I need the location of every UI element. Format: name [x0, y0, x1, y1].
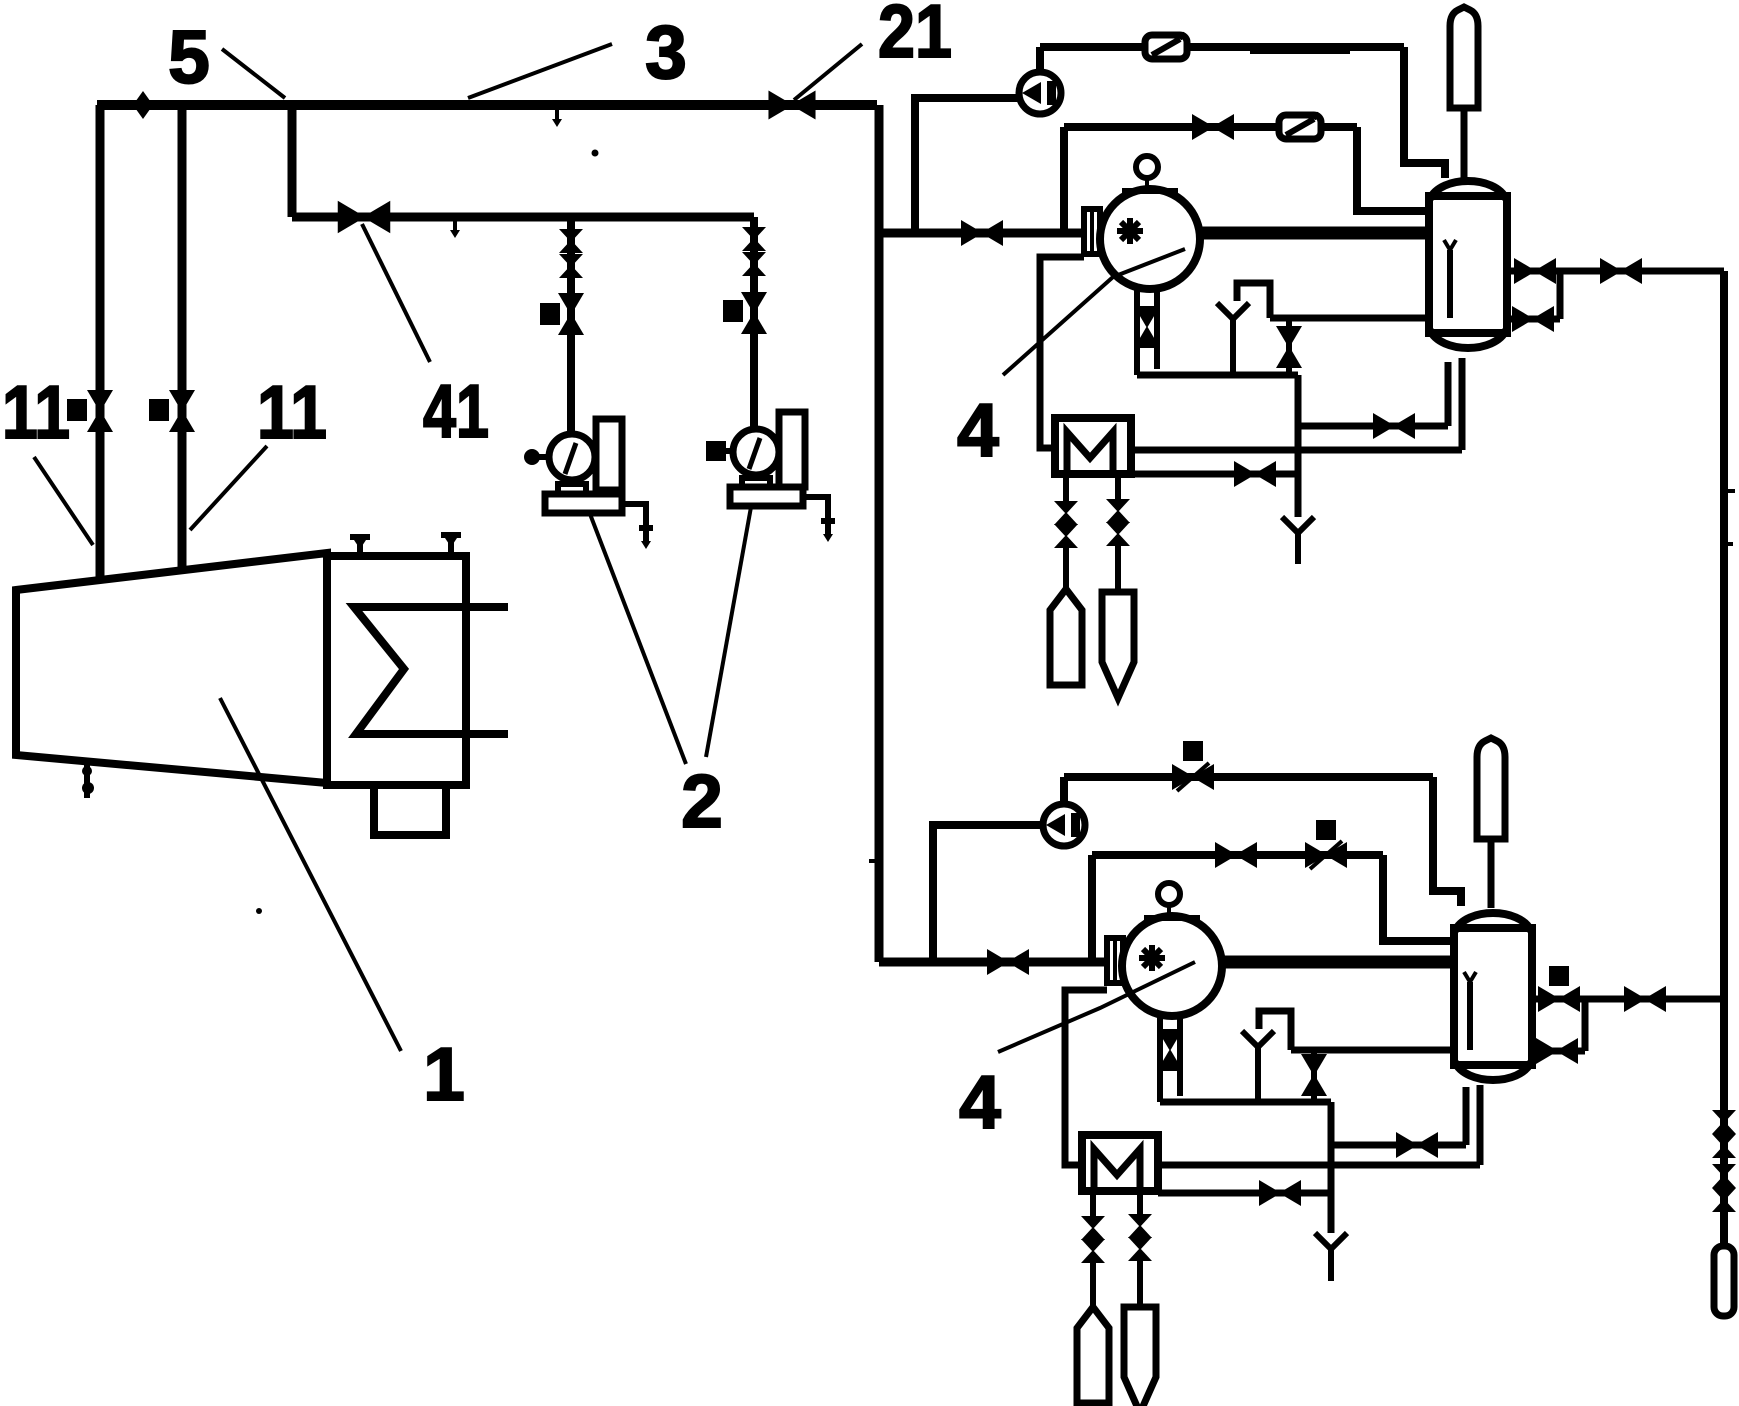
boiler drain [84, 760, 90, 798]
wire upper bottom loop line [1137, 372, 1298, 379]
sample valves right upper [1106, 499, 1130, 523]
leader line for upper 4 [1003, 249, 1185, 375]
svg-text:4: 4 [957, 388, 999, 472]
valve on pump1 line second [559, 254, 583, 278]
valve on lower HX lower outlet [1259, 1180, 1301, 1206]
wire lower vessel drain [1477, 1085, 1484, 1165]
wire upper sample line left [1063, 475, 1069, 501]
heat exchanger upper [1055, 418, 1131, 474]
pump P1 baseplate [545, 494, 622, 513]
flange of rotary device U1 [1084, 209, 1100, 254]
wire lower blower suction riser [933, 825, 1043, 962]
pump P2 drain [803, 497, 828, 534]
sample valves left lower [1081, 1216, 1105, 1240]
rotary processor 4 lower [1122, 883, 1222, 1016]
wire lower HX lower outlet [1158, 1190, 1331, 1197]
vent tick on pump header [450, 219, 460, 238]
separator vessel upper [1429, 181, 1507, 348]
wire upper top pipe drop to vessel [1404, 47, 1445, 178]
wire thick transfer line to lower vessel [1220, 956, 1454, 969]
pump P1 pedestal [558, 484, 586, 494]
svg-text:21: 21 [878, 0, 952, 73]
valve upper lower outlet [1512, 306, 1554, 332]
wire lower bypass pipe [1092, 851, 1383, 859]
valve 21 [768, 90, 815, 119]
leader line for 11 left [34, 457, 93, 545]
svg-text:11: 11 [257, 370, 327, 454]
wire pump suction header 41 [292, 213, 754, 222]
valve stub between lines lower [1311, 1050, 1317, 1102]
wire upper HX inlet [1040, 257, 1084, 448]
pump P2 motor [779, 412, 805, 487]
control valve on pump2 line [741, 292, 767, 334]
boiler heating coil [354, 607, 508, 734]
valve on upper drop pair [1134, 306, 1160, 348]
pump P2 baseplate [730, 487, 803, 506]
wire upper bypass pipe [1064, 123, 1357, 131]
wire lower vessel lower outlet [1532, 1048, 1585, 1055]
wire main steam header pipe 3 [97, 100, 877, 110]
separator vessel lower [1454, 913, 1532, 1080]
valves on right product header [1712, 1110, 1736, 1134]
valve on upper bypass [1192, 114, 1234, 140]
pump P2 inlet square [706, 441, 726, 461]
valve lower vessel lower outlet [1536, 1038, 1578, 1064]
wire upper sample line right [1115, 475, 1121, 499]
pump P2 casing [733, 429, 779, 475]
sample valves left upper [1054, 501, 1078, 525]
wire upper vessel lower outlet [1507, 316, 1560, 323]
sample cylinder left upper [1050, 589, 1082, 685]
wire upper HX lower outlet [1131, 471, 1298, 478]
valve on pump2 line second [742, 252, 766, 276]
wire upper bypass riser [1060, 127, 1068, 233]
wire upper vessel bottom branch [1298, 423, 1448, 430]
drain funnel lower [1315, 1233, 1347, 1249]
leader line for 21 [794, 44, 862, 100]
check valve on upper bypass [1279, 113, 1321, 139]
leader line for lower 4 [998, 962, 1195, 1052]
pump P1 inlet dot [524, 449, 540, 465]
wire pump 2 suction drop [750, 217, 758, 429]
leader line for 5 [222, 49, 285, 98]
valve on upper HX lower outlet [1234, 461, 1276, 487]
wire pump 1 suction drop [567, 217, 575, 434]
wire upper vessel outlet line [1507, 268, 1724, 275]
blower B2 [1043, 804, 1085, 846]
wire lower HX inlet [1065, 990, 1107, 1165]
leader line for 11 right [190, 446, 267, 530]
wire lower drain drop [1328, 1102, 1335, 1233]
rotary processor 4 upper [1100, 156, 1200, 289]
check valve on upper top pipe [1145, 33, 1187, 59]
boiler vent right [441, 535, 461, 554]
valve upper outlet 2 [1600, 258, 1642, 284]
sample valves right lower [1128, 1214, 1152, 1238]
wire upper dip line [1270, 315, 1450, 322]
wire lower dip line [1291, 1047, 1470, 1054]
svg-text:4: 4 [959, 1060, 1001, 1144]
pump P2 pedestal [742, 478, 770, 487]
wire thick transfer line to upper vessel [1198, 227, 1429, 240]
wire pair below lower rotary device [1157, 1013, 1163, 1102]
wire lower sample line left [1090, 1191, 1096, 1216]
wire second downcomer pipe 11b [178, 105, 187, 570]
svg-text:5: 5 [168, 15, 210, 99]
check valve on lower top pipe [1172, 764, 1214, 790]
wire lower bypass riser [1088, 855, 1096, 962]
valve lower outlet 1 with actuator [1538, 986, 1580, 1012]
wire lower sample line right [1137, 1191, 1143, 1214]
small dot artifact 2 [256, 908, 262, 914]
wire left downcomer pipe 11a [96, 105, 105, 580]
svg-text:1: 1 [423, 1032, 465, 1116]
pump P1 motor [596, 419, 622, 490]
heat exchanger lower [1082, 1135, 1158, 1191]
sample cylinder right upper [1102, 592, 1134, 698]
wire lower HX outlet to vessel drain [1158, 1162, 1480, 1169]
vent tick on main header [552, 108, 562, 127]
funnel lower inner [1242, 1031, 1274, 1047]
valve on lower bypass [1215, 842, 1257, 868]
valve on pump1 line upper [559, 229, 583, 253]
valve 11 left with actuator [87, 390, 113, 432]
check valve on lower bypass [1305, 842, 1347, 868]
wire upper drain drop [1295, 375, 1302, 517]
wire upper HX outlet to vessel drain [1131, 447, 1462, 454]
boiler 1 convection pass [327, 556, 466, 785]
wire lower vessel outlet line [1532, 996, 1724, 1003]
chimney level gauge upper [1450, 7, 1478, 108]
valve on upper feed line [961, 220, 1003, 246]
leader line pump2 to label 2 [706, 507, 751, 757]
pump P1 drain [622, 504, 646, 541]
svg-text:41: 41 [423, 369, 489, 453]
flow element D1 on header [133, 91, 153, 119]
wire lower blower stem [1060, 777, 1068, 804]
wire upper vessel drain [1459, 358, 1466, 450]
leader line for 3 [468, 44, 612, 98]
leader line for 41 [362, 224, 430, 362]
drain funnel upper [1282, 517, 1314, 533]
flange of rotary device U2 [1107, 938, 1123, 983]
valve 41 [338, 201, 391, 234]
wire upper bypass drop into vessel [1357, 127, 1429, 211]
valve on pump2 line upper [742, 227, 766, 251]
wire right main vertical to subsystems [869, 859, 879, 863]
wire lower bottom loop line [1160, 1099, 1331, 1106]
sample cylinder left lower [1077, 1307, 1109, 1403]
leader line pump1 to label 2 [590, 514, 686, 764]
boiler 1 furnace body [16, 553, 327, 783]
dip tube upper [1447, 250, 1453, 318]
leader line for 1 [220, 698, 401, 1051]
wire pair below upper rotary device [1134, 286, 1140, 375]
boiler vent left [350, 537, 370, 556]
sample cylinder right header [1714, 1246, 1734, 1316]
funnel upper inner [1217, 303, 1249, 319]
chimney level gauge lower [1477, 738, 1505, 839]
small dot artifact [592, 150, 599, 157]
blower B1 [1019, 72, 1061, 114]
control valve on pump1 line [558, 293, 584, 335]
wire lower recycle top pipe [1064, 773, 1433, 781]
dip tube lower [1467, 982, 1473, 1050]
wire blower discharge stem [1036, 47, 1044, 72]
valve on lower feed line [987, 949, 1029, 975]
wire product header vertical right [1720, 271, 1728, 1246]
valve on lower drop pair [1157, 1029, 1183, 1071]
valve stub between lines upper [1286, 318, 1292, 375]
wire lower vessel bottom branch [1331, 1142, 1466, 1149]
pump P1 casing [549, 434, 595, 480]
wire lower top pipe drop to vessel [1433, 777, 1461, 906]
wire upper funnel feed step [1237, 283, 1270, 318]
valve upper outlet 1 [1514, 258, 1556, 284]
valve on lower bottom branch [1396, 1132, 1438, 1158]
svg-text:3: 3 [645, 10, 687, 94]
valve 11 right with actuator [169, 390, 195, 432]
valve lower outlet 2 [1624, 986, 1666, 1012]
wire branch riser to pump header [288, 105, 297, 217]
wire lower bypass drop into vessel [1383, 855, 1454, 941]
wire upper subsystem feed line [879, 229, 1086, 238]
valve on upper bottom branch [1373, 413, 1415, 439]
wire lower subsystem feed line [879, 958, 1109, 967]
sample cylinder right lower [1124, 1307, 1156, 1406]
wire upper recycle top pipe [1040, 43, 1404, 51]
wire lower funnel feed step [1259, 1011, 1291, 1050]
svg-text:11: 11 [2, 370, 70, 454]
boiler bottom hopper [374, 785, 446, 835]
wire upper blower suction riser [915, 98, 1019, 233]
svg-text:2: 2 [681, 759, 723, 843]
